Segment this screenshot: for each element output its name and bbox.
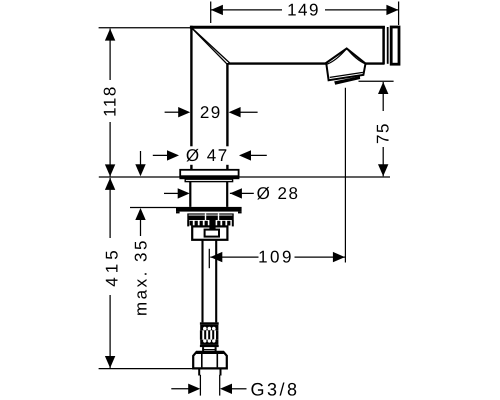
wire: neck left <box>202 347 204 352</box>
svg-text:max. 35: max. 35 <box>131 238 150 316</box>
dim 415 leader bottom <box>99 368 200 370</box>
svg-text:415: 415 <box>103 246 122 286</box>
dim 109 extension at pipe <box>208 249 210 268</box>
wire: spout bottom edge right part <box>365 62 385 64</box>
svg-text:Ø 28: Ø 28 <box>257 184 300 203</box>
pop-up rod box <box>205 230 219 237</box>
svg-text:Ø 47: Ø 47 <box>186 146 229 165</box>
svg-text:149: 149 <box>287 1 320 20</box>
flange bottom thick bar <box>179 176 239 179</box>
wire: thread stub right <box>220 370 222 376</box>
wire: faucet column right edge <box>226 63 228 170</box>
wire: shank cylinder right <box>226 182 228 207</box>
dim 149 extension left <box>210 2 212 24</box>
dim 29 line <box>165 111 180 113</box>
dim G38 extension left <box>199 375 201 396</box>
washer bar <box>176 207 242 212</box>
wire: spout end ring line <box>387 27 389 64</box>
wire: miter diagonal upper <box>192 28 229 63</box>
dim dia47 line <box>153 154 169 156</box>
locknut body <box>192 226 227 239</box>
hex nut top thick edge <box>196 351 224 354</box>
wire: tailpipe right <box>215 240 217 323</box>
svg-text:118: 118 <box>101 85 120 117</box>
wire: tailpipe left <box>201 240 203 323</box>
wire: faucet column left edge <box>190 26 192 170</box>
wire: mounting surface line <box>99 176 390 178</box>
dim max35 lower leader <box>130 207 176 209</box>
locknut upper dark band <box>187 213 233 220</box>
aerator facet line left <box>327 49 347 65</box>
hose upper band <box>200 325 218 331</box>
dim max35 lower stem <box>140 219 142 236</box>
pop-up rod bar <box>209 220 215 230</box>
wire: spout top edge <box>190 26 385 29</box>
svg-text:109: 109 <box>258 248 294 267</box>
flange step <box>185 179 232 181</box>
wire: neck right <box>215 347 217 352</box>
wire: neck cross line <box>203 349 216 351</box>
wire: shank cylinder left <box>189 182 191 207</box>
wire: spout bottom edge left part <box>228 62 327 64</box>
dim G38 line <box>171 388 189 390</box>
dim dia47 label knockout <box>184 146 231 165</box>
wire: thread stub left <box>198 370 200 376</box>
wire: spout end body line <box>382 26 385 64</box>
hose collar top <box>200 322 219 324</box>
hose ribs <box>200 330 202 339</box>
aerator bottom inner line <box>330 72 363 77</box>
dim dia28 line <box>164 192 179 194</box>
aerator face bar <box>334 76 360 85</box>
dim 149 line <box>211 9 282 11</box>
dim 75 line <box>382 82 384 111</box>
hex nut facet line left <box>201 354 203 368</box>
aerator facet line right <box>347 49 366 64</box>
dim 109 line <box>210 256 258 258</box>
wire: miter diagonal lower <box>192 29 228 65</box>
dim 75 leader top <box>359 80 394 82</box>
dim 149 extension right <box>398 2 400 26</box>
svg-text:75: 75 <box>374 122 393 144</box>
dim max35 upper stem <box>140 151 142 166</box>
hex nut <box>193 352 227 369</box>
hose lower band <box>200 340 218 345</box>
locknut knurl band <box>187 220 233 226</box>
dim G38 extension right <box>219 375 221 396</box>
spout end cap <box>391 27 399 64</box>
aerator body <box>326 49 365 81</box>
dim 118 line <box>109 29 111 80</box>
dim 118 leader top <box>99 27 190 29</box>
hose collar bottom <box>200 345 219 347</box>
svg-text:G3/8: G3/8 <box>250 379 299 399</box>
svg-text:29: 29 <box>200 103 222 122</box>
flange plate <box>180 170 238 176</box>
dim 415 line <box>109 178 111 238</box>
outlet centerline <box>344 88 346 263</box>
hex nut facet line right <box>216 354 218 368</box>
